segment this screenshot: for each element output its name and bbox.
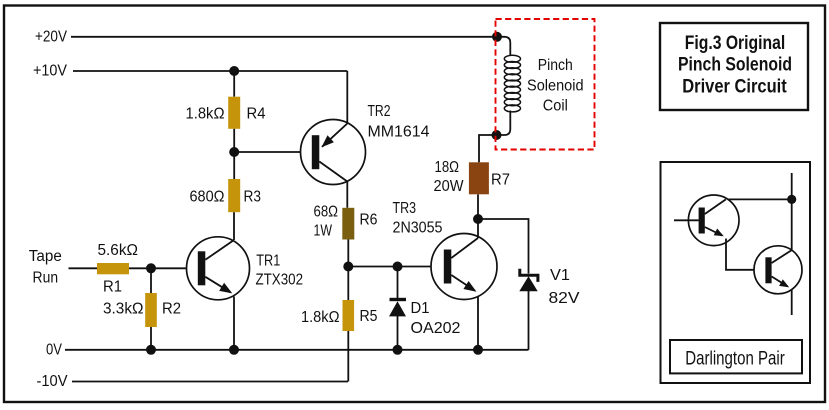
svg-text:82V: 82V: [549, 290, 581, 307]
node coil-R7 junction: [492, 130, 502, 140]
wire R3 to TR1 collector: [233, 212, 235, 240]
wire Q1 emitter to Q2 base: [726, 239, 765, 270]
transistor TR1 ZTX302: [187, 237, 304, 350]
node +10V rail: [33, 63, 347, 80]
svg-text:Solenoid: Solenoid: [527, 78, 584, 95]
resistor R1 5.6k: [97, 242, 138, 295]
svg-text:2N3055: 2N3055: [393, 219, 443, 236]
svg-text:+10V: +10V: [33, 63, 68, 80]
inductor pinch solenoid coil: [497, 37, 521, 135]
svg-text:OA202: OA202: [411, 320, 461, 337]
svg-text:TR1: TR1: [256, 253, 280, 270]
node darlington collector junction: [787, 195, 796, 204]
svg-text:R7: R7: [491, 171, 510, 188]
node +10V junction: [229, 66, 239, 76]
svg-text:ZTX302: ZTX302: [256, 272, 304, 289]
wire R2 top: [150, 268, 152, 293]
resistor R7 18R 20W: [434, 159, 511, 195]
node D1 junction: [393, 262, 403, 272]
wire node to TR3 base: [348, 266, 444, 268]
svg-text:+20V: +20V: [35, 28, 68, 45]
svg-text:0V: 0V: [46, 341, 63, 358]
svg-text:R2: R2: [162, 300, 181, 317]
wire R1 to TR1 base: [129, 267, 198, 269]
resistor R5 1.8k: [301, 267, 378, 332]
svg-text:Pinch: Pinch: [538, 57, 573, 74]
diode D1 OA202: [389, 267, 461, 350]
svg-text:18Ω: 18Ω: [435, 159, 460, 176]
wire collector node to R7: [477, 194, 479, 219]
wire +10V to R4: [233, 71, 235, 97]
svg-text:R4: R4: [247, 106, 266, 123]
svg-text:TR2: TR2: [368, 103, 391, 120]
resistor R2 3.3k: [103, 293, 181, 327]
svg-text:1.8kΩ: 1.8kΩ: [186, 106, 225, 123]
wire TR2 base: [234, 151, 312, 153]
svg-text:Driver Circuit: Driver Circuit: [682, 75, 787, 97]
wire R2 bottom: [150, 327, 152, 350]
node -10V rail: [37, 373, 349, 390]
svg-text:R6: R6: [360, 211, 378, 228]
svg-text:20W: 20W: [434, 178, 464, 195]
svg-text:1W: 1W: [314, 222, 333, 239]
transistor TR3 2N3055: [393, 200, 498, 350]
wire darlington collector rail: [791, 173, 793, 250]
node +20V-coil junction: [492, 32, 502, 42]
node +20V rail: [35, 28, 497, 45]
svg-text:V1: V1: [550, 267, 570, 284]
darlington pair box: [661, 162, 811, 383]
svg-text:MM1614: MM1614: [368, 123, 430, 140]
svg-text:R5: R5: [360, 308, 378, 325]
svg-text:3.3kΩ: 3.3kΩ: [103, 301, 144, 318]
node R2-0V junction: [146, 345, 156, 355]
wire R6 to node: [347, 240, 349, 267]
resistor R6 68R 1W: [314, 204, 378, 240]
resistor R4 1.8k: [186, 97, 266, 129]
node R6/R5 junction: [343, 262, 353, 272]
resistor R3 680: [190, 179, 262, 212]
svg-text:Coil: Coil: [543, 98, 568, 115]
svg-text:68Ω: 68Ω: [314, 204, 339, 221]
svg-text:Darlington Pair: Darlington Pair: [685, 349, 785, 370]
svg-text:Tape: Tape: [29, 248, 62, 265]
svg-text:R1: R1: [103, 278, 122, 295]
transistor Q1 darlington upper: [674, 195, 739, 246]
svg-text:TR3: TR3: [393, 200, 417, 217]
svg-text:680Ω: 680Ω: [190, 189, 225, 206]
svg-text:5.6kΩ: 5.6kΩ: [98, 242, 139, 259]
wire collector node to zener: [478, 219, 529, 274]
wire R7 to coil bottom: [479, 135, 497, 162]
node 0V rail: [46, 341, 529, 358]
svg-text:Pinch Solenoid: Pinch Solenoid: [678, 54, 792, 76]
node junction R1/R2/base: [146, 263, 156, 273]
dashed coil boundary box: [496, 19, 595, 150]
wire R5 to -10V: [347, 331, 349, 382]
node Tape Run input: [29, 248, 97, 287]
svg-text:D1: D1: [411, 300, 430, 317]
node D1-0V junction: [393, 345, 403, 355]
svg-text:R3: R3: [244, 189, 262, 206]
node R4/R3/TR2-base junction: [229, 147, 239, 157]
zener V1 82V: [519, 267, 580, 350]
svg-text:1.8kΩ: 1.8kΩ: [301, 309, 340, 326]
transistor TR2 MM1614: [301, 71, 430, 208]
svg-text:Fig.3 Original: Fig.3 Original: [685, 32, 786, 54]
transistor Q2 darlington lower: [754, 246, 802, 315]
node TR3 emitter-0V junction: [473, 345, 483, 355]
darlington label box: [670, 340, 802, 373]
svg-text:-10V: -10V: [37, 373, 69, 390]
svg-text:Run: Run: [33, 269, 59, 286]
coil label: [527, 57, 584, 115]
node TR1 emitter-0V junction: [229, 345, 239, 355]
node TR3 collector junction: [473, 214, 483, 224]
wire R4 to R3: [233, 129, 235, 179]
title box Fig.3: [660, 23, 808, 110]
